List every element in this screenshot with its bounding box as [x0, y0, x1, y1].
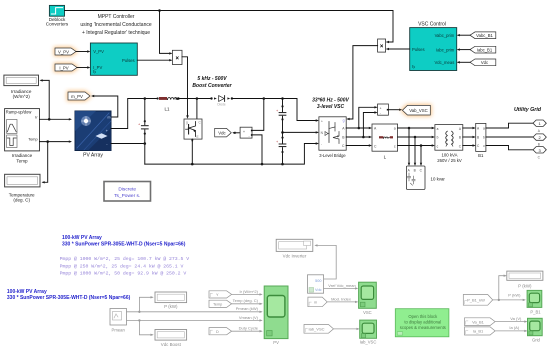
- svg-text:Ts_Power s.: Ts_Power s.: [114, 193, 140, 199]
- from tag P_B1_kW: [463, 295, 492, 306]
- svg-text:a: a: [437, 127, 439, 131]
- svg-text:×: ×: [175, 56, 179, 62]
- svg-text:Va (V): Va (V): [510, 316, 522, 321]
- wire Vabc_B1 to VSC: [458, 34, 470, 36]
- svg-text:10 kvar: 10 kvar: [431, 176, 446, 181]
- svg-text:m: m: [108, 116, 111, 120]
- svg-text:V_PV: V_PV: [58, 49, 69, 54]
- wire tap B to VM2: [363, 113, 376, 138]
- IGBT boost switch: [184, 119, 202, 139]
- wire product to bridge gate: [348, 46, 378, 119]
- wire IGBT emitter to bottom rail: [191, 139, 193, 164]
- annotation MPPT Controller: [80, 14, 151, 36]
- svg-text:a: a: [483, 127, 485, 131]
- svg-text:Temp: Temp: [213, 303, 222, 307]
- svg-text:Ir (W/m^2): Ir (W/m^2): [239, 289, 258, 294]
- svg-text:3-level VSC: 3-level VSC: [317, 104, 345, 110]
- svg-text:Ia (A): Ia (A): [509, 325, 519, 330]
- svg-text:E: E: [197, 135, 199, 139]
- svg-text:Temp: Temp: [28, 138, 37, 142]
- svg-text:Temp (deg. C): Temp (deg. C): [233, 298, 259, 303]
- connection port 2: [533, 134, 546, 147]
- wire deblock to product blocks (top rail): [65, 11, 394, 43]
- svg-text:P (kW): P (kW): [164, 304, 178, 309]
- svg-text:VSC: VSC: [363, 310, 372, 315]
- transformer 100 kVA: [435, 125, 463, 163]
- svg-text:Iab_VSC: Iab_VSC: [308, 327, 324, 332]
- from tag I_PV: [55, 64, 77, 71]
- step source Deblock Converters: [46, 5, 69, 26]
- svg-text:m: m: [314, 301, 317, 305]
- from tag D (duty): [209, 328, 232, 335]
- from tag Iab_VSC: [304, 325, 334, 334]
- svg-text:Vab_VSC: Vab_VSC: [409, 108, 428, 113]
- node kvar tap B: [414, 136, 417, 139]
- svg-text:B: B: [459, 136, 461, 140]
- wire collector drop: [196, 99, 198, 119]
- capacitor C1 dc link: [279, 99, 286, 133]
- svg-text:PV Array: PV Array: [83, 152, 103, 158]
- svg-text:PV: PV: [273, 340, 279, 345]
- svg-text:Pmpp @ 250 W/m^2, 25 deg= 24.: Pmpp @ 250 W/m^2, 25 deg= 24.4 kW @ 265.…: [60, 263, 184, 269]
- wire PV m to m_PV tag: [93, 96, 118, 117]
- svg-text:V_PV: V_PV: [93, 49, 104, 54]
- svg-text:L: L: [384, 155, 387, 160]
- svg-text:Open this block: Open this block: [408, 314, 438, 319]
- svg-text:(W/m^2): (W/m^2): [13, 94, 31, 99]
- annotation 33*60 Hz - 500V 3-level VSC: [312, 98, 349, 111]
- wire m to VSC scope: [327, 301, 357, 303]
- subsystem Pmean (faded): [110, 309, 127, 333]
- wire labels into PV scope: [233, 289, 259, 331]
- wire B1 a to port 1: [486, 123, 533, 128]
- svg-text:Va_B1: Va_B1: [472, 319, 484, 324]
- wire product1 to IGBT gate: [182, 57, 188, 116]
- from tag Vdc (to VSC): [470, 59, 496, 66]
- wire VM2 to Vab_VSC tag: [388, 109, 400, 111]
- node dc link midpoint: [281, 131, 284, 134]
- wire Ir to irradiance display: [41, 80, 49, 119]
- inductor L1: [157, 97, 180, 112]
- wire Ir to PV array: [40, 118, 71, 120]
- connection port 3: [533, 147, 546, 160]
- bottom rail: [145, 144, 318, 165]
- svg-text:330 * SunPower SPR-305E-WHT-D: 330 * SunPower SPR-305E-WHT-D (Nser=5 Np…: [7, 295, 131, 301]
- svg-text:Discrete: Discrete: [118, 187, 136, 193]
- svg-text:Boost Converter: Boost Converter: [192, 83, 232, 89]
- capacitor bank 10 kvar: [406, 166, 445, 189]
- svg-text:Temp: Temp: [16, 158, 28, 163]
- wire VM plus to top rail: [253, 99, 264, 131]
- svg-text:+: +: [321, 119, 323, 123]
- svg-text:P_B1_kW: P_B1_kW: [467, 298, 485, 303]
- wire L b to transformer: [398, 136, 434, 138]
- svg-text:using 'Incremental Conductanc: using 'Incremental Conductance: [80, 22, 151, 28]
- svg-text:I_PV: I_PV: [59, 65, 68, 70]
- annotation Open this block (green): [395, 309, 449, 337]
- svg-text:P (kW): P (kW): [518, 283, 532, 288]
- svg-text:VSC Control: VSC Control: [418, 21, 446, 27]
- wire kvar drops: [409, 128, 421, 165]
- svg-text:260V / 25 kV: 260V / 25 kV: [437, 158, 462, 163]
- svg-text:Pulses: Pulses: [122, 58, 135, 63]
- svg-text:+: +: [138, 122, 141, 126]
- wire P_B1 branch to display: [499, 276, 506, 300]
- svg-text:500: 500: [315, 279, 321, 283]
- goto tag Vdc: [215, 128, 232, 137]
- svg-text:Vdc Inverter: Vdc Inverter: [283, 253, 307, 258]
- powergui Discrete Ts_Power: [104, 182, 151, 202]
- svg-text:Iab_VSC: Iab_VSC: [360, 339, 377, 344]
- svg-text:b: b: [437, 136, 439, 140]
- svg-text:-: -: [380, 112, 381, 116]
- svg-text:B: B: [414, 168, 416, 172]
- from tag Vabc_B1: [470, 32, 496, 39]
- svg-text:Iabc_prim: Iabc_prim: [436, 47, 455, 52]
- svg-text:Vref Vdc_mean: Vref Vdc_mean: [328, 283, 355, 288]
- wire midpoint to bridge N: [283, 131, 318, 133]
- connection port 1: [533, 120, 546, 133]
- node Vab tap B: [362, 136, 365, 139]
- svg-text:(deg. C): (deg. C): [13, 198, 30, 203]
- svg-text:Vdc_meas: Vdc_meas: [435, 60, 455, 65]
- wire mux to VSC scope: [324, 287, 357, 289]
- display P (kW) right: [507, 271, 543, 288]
- svg-text:×: ×: [380, 44, 384, 50]
- svg-text:Vabc_B1: Vabc_B1: [476, 33, 493, 38]
- subsystem VSC Control: [410, 28, 457, 71]
- capacitor Cpv: [141, 99, 148, 165]
- svg-text:g: g: [186, 121, 188, 125]
- svg-text:Vabc_prim: Vabc_prim: [435, 33, 455, 38]
- svg-text:+ Integral Regulator' techniq: + Integral Regulator' technique: [82, 30, 150, 36]
- display Vdc Boost: [155, 330, 187, 347]
- node dc link top: [281, 97, 284, 100]
- svg-text:B1: B1: [478, 153, 484, 158]
- goto tag Vab_VSC: [402, 105, 430, 115]
- svg-text:+: +: [276, 140, 279, 144]
- display Vdc Inverter: [276, 239, 313, 258]
- svg-text:b: b: [483, 136, 485, 140]
- svg-text:+: +: [276, 109, 279, 113]
- wire L c to transformer: [398, 145, 434, 147]
- svg-text:scopes & measurements: scopes & measurements: [400, 325, 446, 330]
- node PV minus junction: [144, 142, 147, 145]
- svg-text:D: D: [216, 330, 219, 334]
- node P_B1 branch: [498, 299, 500, 301]
- node Vab tap A: [358, 127, 361, 130]
- wire Ia_B1 to Grid scope: [495, 330, 526, 332]
- svg-text:P (kW): P (kW): [508, 293, 521, 298]
- PV Array block: [75, 111, 111, 158]
- wire transformer A to B1: [463, 127, 474, 129]
- wire I_PV to MPPT: [77, 67, 89, 69]
- annotation Pmpp lines: [60, 256, 190, 277]
- wire mux to Vdc Inverter display: [316, 245, 336, 279]
- annotation 5 kHz - 500V Boost Converter: [192, 76, 232, 89]
- scope VSC (highlighted): [359, 282, 377, 315]
- from tag Va_B1: [465, 318, 496, 326]
- svg-text:Vdc: Vdc: [218, 130, 226, 135]
- svg-text:5 kHz - 500V: 5 kHz - 500V: [197, 76, 227, 82]
- svg-text:to display additional: to display additional: [404, 320, 441, 325]
- wire PV plus to rail: [111, 99, 157, 129]
- wire bridge C to L: [346, 145, 370, 147]
- goto tag m_PV: [68, 92, 90, 100]
- svg-text:Vdc: Vdc: [481, 60, 488, 65]
- wire MPPT pulses to product1: [137, 59, 171, 61]
- svg-text:a: a: [394, 127, 396, 131]
- display Temperature (deg. C): [5, 174, 40, 202]
- wire Y to PV scope: [232, 293, 262, 295]
- wire Temp to PV scope: [232, 303, 262, 305]
- svg-text:+: +: [243, 130, 245, 134]
- scope PV (highlighted): [264, 286, 288, 345]
- wire B1 b to port 2: [486, 136, 533, 138]
- voltage measurement VM2 Vab: [378, 104, 389, 116]
- node IGBT collector on rail: [196, 97, 199, 100]
- wire P branch to display: [139, 297, 152, 312]
- node kvar tap A: [408, 127, 411, 130]
- wire tap A to VM2: [359, 107, 376, 128]
- svg-text:33*60 Hz - 500V: 33*60 Hz - 500V: [312, 98, 349, 104]
- wire P_B1 to scope: [493, 299, 525, 301]
- wire rail diode to corner, down to bridge plus: [232, 99, 318, 121]
- scope Iab_VSC (highlighted): [360, 320, 377, 344]
- wire bridge A to L: [346, 127, 370, 129]
- svg-text:m_PV: m_PV: [71, 94, 83, 99]
- wire deblock branch to product1: [160, 11, 172, 54]
- from tag Ia_B1: [465, 327, 496, 335]
- capacitor C2 dc link: [279, 132, 286, 164]
- from tag Temp: [209, 300, 232, 307]
- svg-text:MPPT Controller: MPPT Controller: [98, 14, 135, 20]
- wire transformer B to B1: [463, 136, 474, 138]
- node P branch: [138, 311, 140, 313]
- svg-text:-: -: [249, 134, 250, 138]
- diode boost: [210, 96, 233, 107]
- svg-text:Utility Grid: Utility Grid: [514, 107, 542, 113]
- node V branch: [138, 319, 140, 321]
- subsystem MPPT Control: [90, 43, 137, 75]
- svg-text:c: c: [394, 144, 396, 148]
- svg-text:Grid: Grid: [532, 338, 541, 343]
- wire Pmean V out: [127, 319, 262, 321]
- from tag m: [308, 297, 327, 307]
- wire rail L1 to diode: [178, 98, 211, 100]
- svg-text:+: +: [380, 107, 382, 111]
- product block U1 (boost gating): [172, 50, 182, 64]
- svg-text:Vdc Boost: Vdc Boost: [161, 342, 182, 347]
- svg-text:Vdc: Vdc: [315, 288, 322, 292]
- node Ir branch: [48, 118, 51, 121]
- svg-text:100-kW PV Array: 100-kW PV Array: [62, 235, 102, 241]
- svg-text:Pmean: Pmean: [112, 327, 126, 332]
- wire PV minus: [111, 143, 145, 145]
- svg-text:Mod. Index: Mod. Index: [331, 297, 351, 302]
- svg-text:↻: ↻: [412, 65, 416, 70]
- svg-text:B: B: [538, 143, 540, 147]
- node Temp branch: [46, 140, 49, 143]
- scope P_B1 (highlighted): [527, 290, 542, 314]
- three-level bridge U2: [319, 117, 347, 158]
- svg-text:Converters: Converters: [46, 22, 69, 27]
- annotation 100-kW PV Array (upper): [62, 235, 186, 248]
- svg-text:3-Level Bridge: 3-Level Bridge: [319, 153, 346, 158]
- wire B1 c to port 3: [486, 146, 533, 150]
- svg-text:Pmean (kW): Pmean (kW): [236, 306, 259, 311]
- signal builder Irradiance Temp: [5, 109, 40, 164]
- product block U3 (VSC gating): [378, 39, 386, 52]
- svg-text:Ia_B1: Ia_B1: [473, 329, 484, 334]
- display Irradiance (W/m^2): [4, 75, 39, 99]
- svg-text:P_B1: P_B1: [530, 310, 541, 315]
- svg-text:Pulses: Pulses: [412, 47, 425, 52]
- wire D to PV scope: [232, 330, 262, 332]
- scope Grid (highlighted): [528, 318, 543, 342]
- from tag V_PV: [55, 48, 76, 55]
- svg-text:↻: ↻: [93, 70, 97, 75]
- from tag Iabc_B1: [470, 46, 496, 53]
- node deblock branch: [158, 9, 161, 12]
- svg-text:B: B: [477, 136, 479, 140]
- svg-text:g: g: [343, 119, 345, 123]
- node cap top: [144, 97, 147, 100]
- node kvar tap C: [420, 144, 423, 147]
- svg-text:Diode: Diode: [217, 102, 226, 106]
- svg-text:L1: L1: [165, 107, 170, 112]
- svg-text:Ramp-up/dow: Ramp-up/dow: [6, 110, 32, 115]
- svg-text:Iabc_B1: Iabc_B1: [477, 47, 493, 52]
- wire V branch to display: [139, 320, 152, 334]
- wire bridge B to L: [346, 136, 370, 138]
- svg-text:Pmpp @ 1000 W/m^2, 25 deg= 100: Pmpp @ 1000 W/m^2, 25 deg= 100.7 kW @ 27…: [60, 256, 190, 262]
- wire Vdc to VSC: [458, 61, 470, 63]
- svg-text:-: -: [321, 143, 322, 147]
- svg-text:Vmean (V): Vmean (V): [239, 315, 259, 320]
- wire Pmean P out: [127, 311, 262, 313]
- from tag Y (irradiance): [209, 291, 232, 298]
- wire Temp to PV array: [40, 141, 71, 143]
- svg-text:Duty Cycle: Duty Cycle: [239, 326, 259, 331]
- display P (kW) left: [155, 292, 187, 309]
- wire VM minus to bottom rail: [253, 135, 263, 164]
- annotation 100-kW PV Array (lower): [7, 289, 131, 301]
- wire L a to transformer: [398, 127, 434, 129]
- svg-text:Pmpp @ 1000 W/m^2, 50 deg= 92.: Pmpp @ 1000 W/m^2, 50 deg= 92.9 kW @ 250…: [60, 271, 187, 277]
- svg-text:C: C: [538, 155, 541, 159]
- wire Iab_VSC to scope: [334, 328, 359, 330]
- wire Iabc_B1 to VSC: [458, 49, 470, 51]
- wire VSC pulses to product: [387, 48, 410, 50]
- measurement block B1: [476, 123, 486, 158]
- wire transformer C to B1: [463, 145, 474, 147]
- voltage measurement VM boost: [240, 127, 252, 138]
- svg-text:330 * SunPower SPR-305E-WHT-D: 330 * SunPower SPR-305E-WHT-D (Nser=5 Np…: [62, 242, 186, 248]
- wire V_PV to MPPT: [76, 51, 89, 53]
- choke L three-phase: [372, 124, 398, 160]
- wire VM v to Vdc tag: [234, 132, 241, 134]
- mux block Vref Vdc_mean: [308, 275, 324, 293]
- wire Va_B1 to Grid scope: [495, 321, 526, 323]
- svg-text:A: A: [538, 129, 541, 133]
- wire Temp to temperature display: [43, 142, 48, 183]
